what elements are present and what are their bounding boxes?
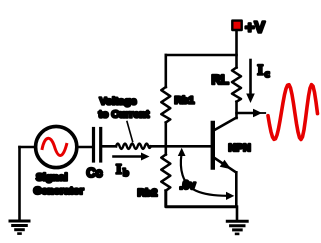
wire: Rb1 bottom to base junction (165, 123, 168, 147)
label Rb2 (138, 187, 158, 199)
ground GND1 (signal generator) (10, 147, 29, 234)
label +V (245, 20, 265, 37)
signal generator internal sine (42, 138, 66, 155)
label Ib (116, 163, 129, 180)
svg-text:Ic: Ic (258, 63, 270, 81)
capacitor Cc (94, 129, 101, 162)
wire: emitter down to bottom wire (235, 172, 238, 206)
svg-text:Cc: Cc (87, 166, 103, 180)
label Signal Generator (34, 172, 84, 198)
wire: left horizontal, ground to signal generator (20, 146, 36, 149)
wire: Rb2 bottom corner to emitter node (bottom wire) (166, 191, 237, 207)
svg-text:NPN: NPN (229, 142, 251, 154)
waveform: output sine (amplified signal) (268, 85, 318, 140)
wire: base junction down to Rb2 (165, 146, 168, 154)
label Ic (258, 63, 270, 81)
pointer line from label to wavy wire (127, 122, 133, 142)
arrow .6v (base-emitter voltage) (178, 148, 235, 200)
label NPN (229, 142, 251, 154)
resistor Rb2 (161, 155, 170, 191)
label Rb1 (175, 95, 195, 107)
transistor Q1: emitter lead with arrow (215, 158, 237, 172)
wire: base horizontal to transistor (151, 145, 212, 148)
label Voltage to Current (99, 96, 150, 121)
supply +V terminal (red square) (232, 21, 241, 30)
wire: capacitor to squiggle (102, 145, 116, 148)
ground GND2 (emitter) (227, 207, 247, 234)
wire: top horizontal (Rb1 to supply) (166, 54, 237, 57)
arrow: output signal (collector node to waveform) (237, 109, 266, 118)
resistor Rb1 (161, 87, 170, 123)
svg-text:Signal: Signal (36, 172, 68, 184)
svg-text:Rb2: Rb2 (138, 187, 158, 199)
svg-text:Generator: Generator (34, 185, 84, 197)
transistor Q1: collector lead (215, 118, 237, 131)
label .6v (180, 180, 197, 192)
svg-text:.6v: .6v (180, 180, 197, 192)
wire: supply down to RL (235, 31, 238, 68)
label Cc (87, 166, 103, 180)
arrow Ic (collector current) (246, 60, 255, 103)
wire: generator to capacitor (77, 146, 92, 149)
wire: RL bottom to collector (235, 102, 238, 118)
svg-text:to Current: to Current (99, 109, 150, 121)
label RL (212, 72, 229, 87)
node: bias divider vertical (upper segment to Rb1) (165, 55, 168, 87)
signal generator SG1 (source circle) (36, 126, 77, 167)
svg-text:Ib: Ib (116, 163, 129, 180)
transistor Q1 NPN: base bar (211, 123, 215, 168)
wire: wavy segment (voltage-to-current region) (116, 144, 151, 149)
resistor RL (232, 68, 241, 102)
svg-text:RL: RL (212, 72, 229, 87)
svg-text:Rb1: Rb1 (175, 95, 195, 107)
arrow Ib (base current) (114, 153, 150, 161)
svg-text:Voltage: Voltage (100, 96, 137, 108)
svg-text:+V: +V (245, 20, 265, 37)
